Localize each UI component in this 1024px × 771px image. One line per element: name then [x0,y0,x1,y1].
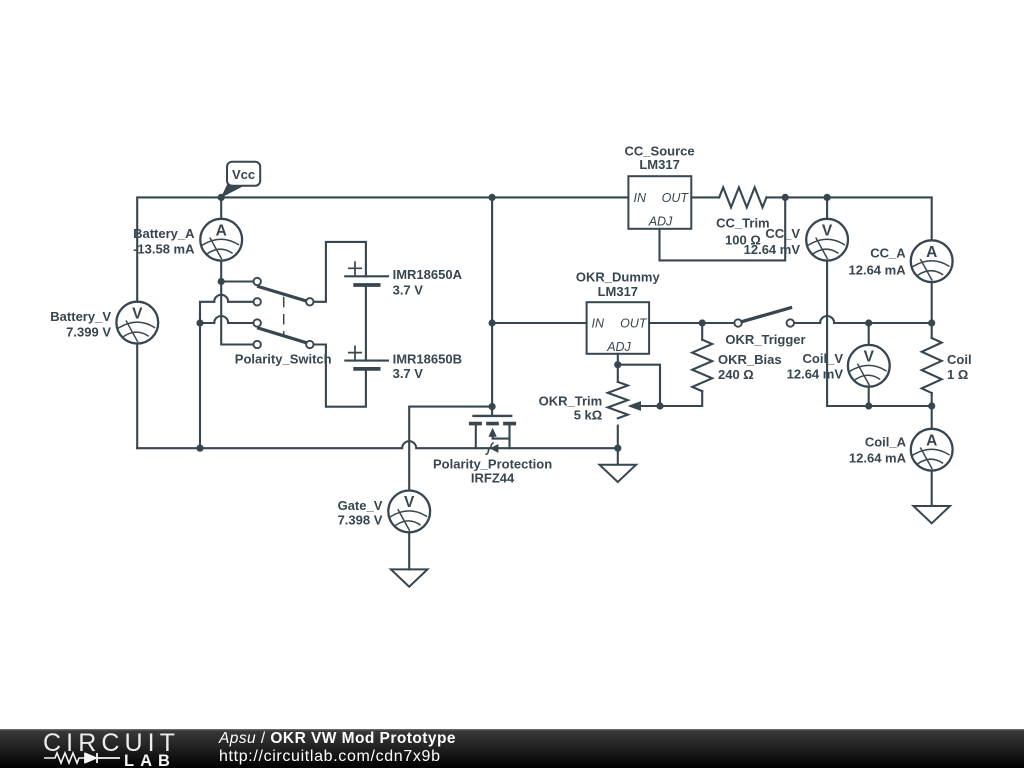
svg-text:OUT: OUT [620,316,648,330]
wire CC_V top lead [826,197,828,218]
svg-text:LM317: LM317 [639,157,679,172]
label CC_V value [744,226,801,257]
wire Coil_A bottom to ground [931,471,933,507]
switch Polarity_Switch common circle B [306,341,313,348]
resistor OKR_Bias [692,340,712,391]
svg-text:A: A [216,223,227,240]
potentiometer OKR_Trim body [608,382,628,418]
transistor Q1 body-source link [493,436,510,439]
wire switch rowB to battery bottom loop [314,345,366,407]
op-box U2 OKR_Dummy LM317 [587,302,650,354]
svg-text:12.64 mA: 12.64 mA [849,450,907,465]
footer title line [219,730,456,748]
label IMR18650B value [393,351,462,381]
battery IMR18650B minus plate [355,367,378,371]
label Battery_A value [133,226,195,257]
svg-text:ADJ: ADJ [606,340,631,354]
wire Coil bottom lead [931,393,933,406]
footer bar [0,729,1024,768]
switch OKR_Trigger circle1 [734,319,741,326]
svg-text:A: A [926,433,937,450]
svg-text:1 Ω: 1 Ω [947,367,968,382]
resistor CC_Trim [719,187,766,207]
transistor Q1 source marker arrowhead [491,445,498,452]
meter CC_V [806,219,848,261]
transistor Q1 source marker squiggle [486,443,493,454]
label OKR_Dummy LM317 [576,269,661,299]
switch Polarity_Switch throw circle row4 [254,341,261,348]
svg-text:OKR_Bias: OKR_Bias [718,352,782,367]
wire OKR_Bias bottom to wiper line [660,391,702,406]
svg-text:Gate_V: Gate_V [338,498,383,513]
battery IMR18650A plus sign [349,262,361,274]
svg-text:Polarity_Switch: Polarity_Switch [235,352,332,367]
svg-text:-13.58 mA: -13.58 mA [133,242,195,257]
transistor Q1 body arrow [489,429,496,436]
ground under Coil_A [913,506,950,523]
wire CC_A bottom lead [931,282,933,323]
svg-text:IMR18650B: IMR18650B [393,351,462,366]
wire ADJ branch to wiper [618,365,660,406]
switch Polarity_Switch lever1 [259,287,306,301]
switch Polarity_Switch common circle A [306,298,313,305]
svg-text:Battery_A: Battery_A [133,226,195,241]
transistor Q1 gate plate [474,415,512,417]
svg-text:5 kΩ: 5 kΩ [574,407,603,422]
transistor Q1 gate lead [491,407,493,415]
battery IMR18650B plus sign [349,346,361,358]
svg-text:OKR_Trigger: OKR_Trigger [725,332,805,347]
label Coil_V value [787,351,844,382]
wire OKR_Trim bottom lead to ground [617,426,619,465]
svg-text:LM317: LM317 [598,284,638,299]
label Polarity_Protection IRFZ44 [433,456,552,485]
svg-text:Polarity_Protection: Polarity_Protection [433,456,552,471]
meter CC_A [911,240,953,282]
switch OKR_Trigger circle2 [787,319,794,326]
wire between batteries [365,285,367,361]
wire wiper line [640,405,660,407]
switch OKR_Trigger lever [742,308,791,322]
svg-text:OKR_Trim: OKR_Trim [539,393,603,408]
wire switch row1 [221,280,253,282]
svg-text:12.64 mV: 12.64 mV [787,367,844,382]
hop row3 [214,316,228,323]
resistor Coil [922,338,942,393]
switch Polarity_Switch pole circle row1 [254,278,261,285]
wire bottom rail with hop over Gate_V line [137,441,618,448]
wire CC_V bottom down to coil bottom rail [827,261,869,406]
svg-text:3.7 V: 3.7 V [393,282,424,297]
switch Polarity_Switch pole circle row3 [254,319,261,326]
label OKR_Bias value [718,352,782,382]
wire Vcc stub to Battery_A [220,197,222,218]
svg-text:7.398 V: 7.398 V [338,512,383,527]
svg-text:CC_V: CC_V [765,226,800,241]
wire Coil_V bottom lead [868,387,870,406]
label Gate_V value [338,498,383,527]
node junction dots [196,194,935,452]
label IMR18650A value [393,267,463,297]
wire left rail upper (Vcc net, x=137) [137,197,628,301]
svg-text:Battery_V: Battery_V [50,309,111,324]
meter Gate_V [388,491,430,533]
svg-text:V: V [864,349,875,366]
footer logo resistor-diode glyph [44,751,120,765]
svg-text:CC_A: CC_A [870,246,906,261]
wire x=200 vertical to bottom rail [199,323,201,448]
svg-text:240 Ω: 240 Ω [718,367,754,382]
wire switch rowA to battery top loop [314,242,366,302]
svg-text:7.399 V: 7.399 V [66,324,111,339]
op-box U1 CC_Source LM317 [628,176,691,229]
svg-text:12.64 mA: 12.64 mA [849,263,907,278]
svg-text:Coil: Coil [947,352,972,367]
battery IMR18650A plus plate [345,275,388,277]
svg-text:IMR18650A: IMR18650A [393,267,463,282]
meter Battery_A [200,219,242,261]
battery IMR18650A minus plate [355,283,378,287]
svg-text:IN: IN [592,316,605,330]
wire trigger to right rail with hop over CC_V line [794,322,932,324]
wire CC_Trim to corner and down to CC_A [767,197,932,240]
label CC_A value [849,246,907,278]
label CC_Trim value [716,216,769,248]
wire coil bottom rail [869,405,932,407]
svg-text:3.7 V: 3.7 V [393,366,424,381]
svg-text:IN: IN [634,191,647,205]
wire OKR_Bias top lead [701,323,703,340]
label OKR_Trim value [539,393,603,422]
svg-text:A: A [926,244,937,261]
svg-text:CC_Trim: CC_Trim [716,216,769,231]
meter Coil_A [911,429,953,471]
hop row2 [214,295,228,302]
svg-text:ADJ: ADJ [648,215,673,229]
label CC_Source LM317 [625,144,695,173]
svg-text:V: V [132,305,143,322]
svg-text:OUT: OUT [662,191,690,205]
svg-text:Coil_V: Coil_V [803,351,844,366]
wire CC_Source OUT lead [691,196,719,198]
switch Polarity_Switch lever2 [259,328,306,342]
meter Coil_V [848,345,890,387]
svg-text:OKR_Dummy: OKR_Dummy [576,269,661,284]
ground under Gate_V [391,569,428,586]
hop over CC_V line [820,316,834,323]
wire switch row2 with hop [200,302,253,323]
svg-text:12.64 mV: 12.64 mV [744,242,801,257]
svg-text:V: V [404,494,415,511]
ground under OKR_Trim [600,465,637,482]
wire OKR_Dummy ADJ to pot top [617,354,619,382]
footer logo CIRCUIT [43,729,180,758]
label Coil value [947,352,972,382]
wire Coil_V top lead [868,323,870,345]
footer logo LAB [124,752,176,771]
svg-text:IRFZ44: IRFZ44 [471,470,515,485]
wire Gate_V bottom to ground [408,532,410,569]
svg-text:V: V [822,223,833,240]
wire left rail lower (to bottom rail) [136,344,138,449]
label Battery_V value [50,309,111,339]
wire switch row3 with hop [200,322,253,324]
wire mid to OKR_Dummy IN [492,322,586,324]
transistor Q1 channel bars [469,422,516,426]
svg-text:Vcc: Vcc [232,167,255,182]
svg-text:Coil_A: Coil_A [865,435,907,450]
footer url line [219,748,441,766]
wire Battery_A bottom to switch column x=221 [221,261,253,345]
switch Polarity_Switch gang dashes [283,298,285,335]
wire Coil top lead [931,323,933,338]
switch Polarity_Switch throw circle row2 [254,298,261,305]
wire Gate_V gate tap [409,407,492,491]
battery IMR18650B plus plate [345,360,388,362]
wire mid vertical x=492 from top rail to MOSFET gate node [491,197,493,406]
net flag Vcc [222,162,260,197]
transistor Q1 source lead [508,424,510,448]
transistor Q1 drain lead [475,424,477,448]
wire Coil_A top lead [931,406,933,429]
wiper arrowhead [629,402,641,410]
meter Battery_V [116,302,158,344]
label Coil_A value [849,435,907,466]
wire OKR_Dummy OUT to trigger [649,322,734,324]
wire CC_Source ADJ loop [660,197,786,260]
